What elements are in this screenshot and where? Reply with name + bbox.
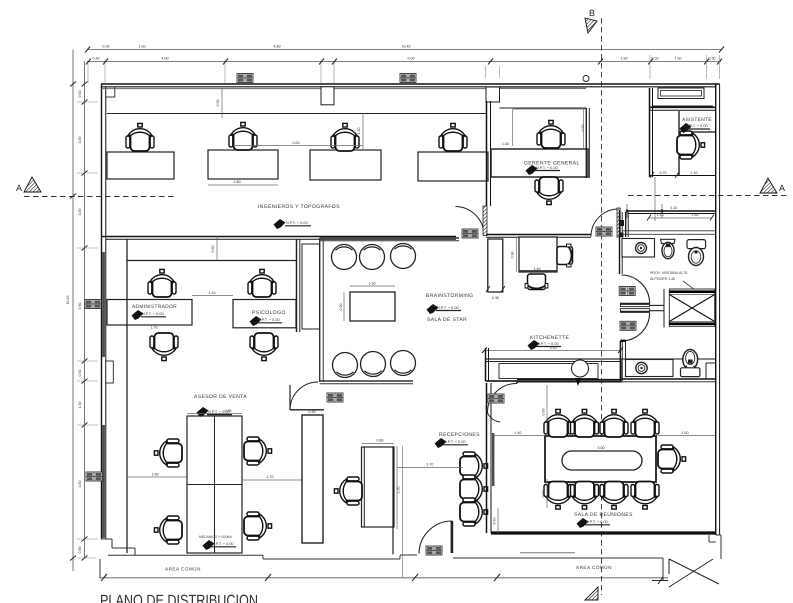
svg-text:N.P.T. + 0.00: N.P.T. + 0.00	[686, 124, 708, 128]
svg-text:0.75: 0.75	[660, 171, 667, 175]
svg-text:0.40: 0.40	[493, 518, 497, 525]
svg-text:1.30: 1.30	[78, 402, 82, 409]
svg-text:A: A	[16, 183, 22, 193]
svg-text:1.80: 1.80	[234, 180, 241, 184]
svg-text:1.50: 1.50	[369, 282, 376, 286]
svg-text:0.50: 0.50	[78, 370, 82, 377]
svg-text:3.00: 3.00	[78, 137, 82, 144]
svg-text:RECEPCIONES: RECEPCIONES	[439, 432, 480, 438]
svg-text:1.50: 1.50	[675, 57, 682, 61]
svg-text:0.30: 0.30	[492, 296, 499, 300]
svg-text:ASESOR DE VENTA: ASESOR DE VENTA	[194, 394, 247, 400]
svg-text:N.P.T. + 0.00: N.P.T. + 0.00	[437, 306, 459, 310]
svg-text:AREA COMÚN: AREA COMÚN	[576, 565, 612, 570]
svg-text:0.30: 0.30	[709, 57, 716, 61]
svg-text:AREA COMÚN: AREA COMÚN	[165, 567, 201, 572]
svg-text:0.50: 0.50	[78, 91, 82, 98]
svg-text:BRAINSTORMING: BRAINSTORMING	[426, 293, 473, 299]
svg-text:PLANO DE DISTRIBUCION: PLANO DE DISTRIBUCION	[100, 592, 258, 603]
svg-text:0.35: 0.35	[225, 409, 232, 413]
svg-text:0.30: 0.30	[652, 57, 659, 61]
svg-text:3.00: 3.00	[78, 209, 82, 216]
svg-text:0.80: 0.80	[211, 246, 215, 253]
svg-text:0.80: 0.80	[377, 439, 384, 443]
svg-text:1.10: 1.10	[209, 291, 216, 295]
svg-text:ADMINISTRADOR: ADMINISTRADOR	[132, 304, 177, 310]
svg-text:6.00: 6.00	[408, 57, 415, 61]
svg-text:10.45: 10.45	[66, 296, 70, 305]
svg-text:1.10: 1.10	[691, 171, 698, 175]
svg-text:1.75: 1.75	[151, 326, 158, 330]
svg-text:0.50: 0.50	[542, 409, 546, 416]
svg-text:1.00: 1.00	[502, 142, 509, 146]
svg-text:0.30: 0.30	[103, 45, 110, 49]
svg-text:3.10: 3.10	[550, 346, 557, 350]
svg-text:SALA DE STAR: SALA DE STAR	[427, 317, 467, 323]
svg-text:3.50: 3.50	[78, 303, 82, 310]
svg-text:ALFEIZER 1.40: ALFEIZER 1.40	[650, 277, 675, 281]
svg-text:0.90: 0.90	[511, 252, 515, 259]
svg-text:3.10: 3.10	[670, 206, 677, 210]
svg-text:N.P.T. + 0.00: N.P.T. + 0.00	[536, 166, 558, 170]
svg-text:0.60: 0.60	[293, 141, 300, 145]
svg-text:INGENIEROS Y TOPOGRAFOS: INGENIEROS Y TOPOGRAFOS	[258, 204, 340, 210]
svg-text:0.90: 0.90	[581, 125, 585, 132]
svg-text:N.P.T. + 0.00: N.P.T. + 0.00	[212, 542, 234, 546]
svg-text:N.P.T. + 0.00: N.P.T. + 0.00	[586, 520, 608, 524]
svg-text:1.50: 1.50	[357, 128, 361, 135]
svg-text:3.00: 3.00	[598, 446, 605, 450]
svg-text:4.00: 4.00	[162, 57, 169, 61]
svg-text:1.40: 1.40	[515, 431, 522, 435]
svg-text:0.30: 0.30	[309, 410, 316, 414]
svg-text:0.90: 0.90	[339, 304, 343, 311]
svg-text:0.80: 0.80	[78, 547, 82, 554]
svg-text:1.70: 1.70	[427, 463, 434, 467]
svg-text:KITCHENETTE: KITCHENETTE	[530, 335, 569, 341]
svg-text:1.50: 1.50	[621, 57, 628, 61]
svg-text:MECANICO Y SISMA: MECANICO Y SISMA	[199, 535, 233, 539]
svg-text:1.50: 1.50	[139, 45, 146, 49]
svg-text:1.40: 1.40	[534, 267, 541, 271]
svg-text:ASISTENTE: ASISTENTE	[682, 117, 712, 123]
svg-text:A: A	[779, 183, 785, 193]
svg-text:SALA DE REUNIONES: SALA DE REUNIONES	[574, 512, 633, 518]
svg-text:0.50: 0.50	[542, 491, 546, 498]
svg-text:1.70: 1.70	[267, 475, 274, 479]
svg-text:1.60: 1.60	[682, 431, 689, 435]
svg-text:N.P.T. + 0.00: N.P.T. + 0.00	[286, 221, 308, 225]
svg-text:16.40: 16.40	[402, 45, 411, 49]
svg-text:PROY. VENTANA ALTA: PROY. VENTANA ALTA	[650, 271, 688, 275]
svg-text:3.50: 3.50	[78, 481, 82, 488]
svg-text:N.P.T. + 0.00: N.P.T. + 0.00	[142, 312, 164, 316]
svg-text:0.30: 0.30	[93, 57, 100, 61]
svg-text:1.95: 1.95	[152, 473, 159, 477]
svg-text:1.30: 1.30	[397, 487, 401, 494]
svg-text:N.P.T. + 0.00: N.P.T. + 0.00	[444, 440, 466, 444]
svg-text:4.80: 4.80	[274, 45, 281, 49]
svg-text:B: B	[589, 8, 595, 18]
svg-text:N.P.T. + 0.00: N.P.T. + 0.00	[258, 318, 280, 322]
svg-text:PSICOLOGO: PSICOLOGO	[252, 310, 286, 316]
svg-text:0.90: 0.90	[216, 100, 220, 107]
